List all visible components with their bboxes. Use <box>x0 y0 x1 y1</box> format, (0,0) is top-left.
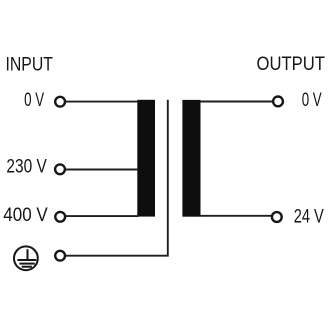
svg-text:OUTPUT: OUTPUT <box>257 53 326 75</box>
svg-text:230 V: 230 V <box>6 156 46 178</box>
svg-text:24 V: 24 V <box>294 205 324 227</box>
svg-text:0 V: 0 V <box>24 89 44 111</box>
svg-text:0 V: 0 V <box>302 89 322 111</box>
svg-text:INPUT: INPUT <box>6 54 54 76</box>
svg-text:400 V: 400 V <box>3 204 47 226</box>
